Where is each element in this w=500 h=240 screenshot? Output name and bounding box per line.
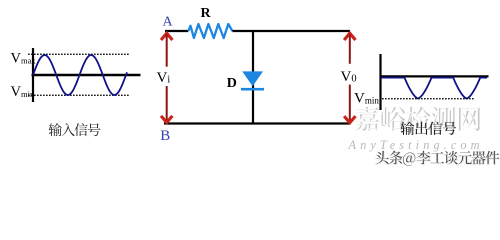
- svg-text:Vi: Vi: [157, 70, 171, 86]
- input Vmax dotted line: [28, 53, 130, 55]
- wire top right: [232, 30, 350, 32]
- wire middle vertical: [252, 31, 254, 124]
- caption 输入信号: [49, 123, 62, 136]
- arrow Vo upper head: [344, 33, 355, 40]
- output waveform: [381, 78, 487, 99]
- svg-text:A: A: [162, 15, 173, 30]
- wire bottom: [164, 122, 351, 124]
- resistor R: [188, 24, 232, 38]
- output Vmin dotted line: [382, 98, 475, 100]
- arrow Vo lower shaft: [349, 85, 351, 122]
- svg-text:V0: V0: [341, 69, 357, 85]
- input sine wave: [33, 55, 127, 95]
- output zero line: [381, 75, 489, 77]
- svg-text:D: D: [227, 76, 237, 91]
- arrow Vi lower head: [161, 116, 172, 123]
- arrow Vi upper shaft: [166, 35, 168, 67]
- diode D cathode bar: [241, 88, 264, 91]
- svg-text:R: R: [201, 6, 212, 21]
- svg-text:AnyTesting.com: AnyTesting.com: [348, 138, 484, 152]
- arrow Vo upper shaft: [349, 35, 351, 64]
- arrow Vi lower shaft: [166, 86, 168, 121]
- input graph vertical axis: [32, 48, 34, 102]
- output graph vertical axis: [379, 54, 381, 110]
- arrow Vo lower head: [344, 116, 355, 123]
- svg-text:Vmin: Vmin: [354, 91, 379, 107]
- wire top left: [165, 30, 188, 32]
- diode D triangle: [242, 71, 263, 86]
- input Vmin dotted line: [28, 94, 130, 96]
- svg-text:Vmin: Vmin: [11, 84, 35, 100]
- input graph zero line: [32, 74, 141, 76]
- arrow Vi upper head: [161, 33, 172, 40]
- caption 输出信号: [400, 121, 414, 135]
- svg-text:B: B: [160, 128, 170, 144]
- watermark 头条@李工谈元器件: [376, 152, 390, 166]
- watermark 嘉峪检测网: [356, 108, 380, 132]
